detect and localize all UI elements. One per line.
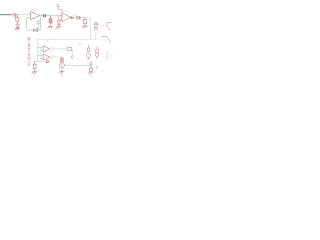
zener chain top arrow <box>28 37 30 45</box>
relay coil K1 <box>94 22 97 30</box>
second vertical <box>40 47 42 58</box>
wire B out <box>50 56 62 58</box>
wire right trunk <box>38 18 91 39</box>
ground mid <box>32 72 38 76</box>
power flag +5V <box>56 4 62 13</box>
switch S2 <box>102 37 110 44</box>
svg-text:TL081: TL081 <box>31 9 38 11</box>
net arrow out <box>71 17 74 19</box>
svg-text:1M: 1M <box>47 14 50 16</box>
capacitor C1 <box>36 20 40 31</box>
resistor R2 <box>49 16 52 27</box>
svg-text:o2: o2 <box>77 59 79 61</box>
ground R3 <box>82 26 88 28</box>
op-amp U2 <box>62 13 71 22</box>
zener D6 <box>28 55 31 63</box>
resistor R1 <box>16 15 19 24</box>
ground D4 <box>56 27 62 29</box>
stubs A <box>38 47 43 58</box>
wire to relay coil <box>91 30 96 39</box>
op-amp B <box>43 54 50 61</box>
resistor chain mid <box>33 61 36 71</box>
wire bottom <box>65 64 91 66</box>
op-amp U1 <box>31 12 40 20</box>
diamond node <box>71 55 74 58</box>
diode D3 feedback <box>34 28 38 32</box>
ground <box>15 29 21 31</box>
input stubs U1 <box>29 12 31 14</box>
switch S1 <box>107 22 112 30</box>
zener D5 <box>28 45 31 55</box>
wire to op-amp U1 <box>16 14 31 16</box>
svg-text:1k: 1k <box>95 61 97 63</box>
wire M1 down <box>61 68 63 72</box>
LED branch 2 <box>95 47 99 59</box>
junction mid <box>34 61 35 62</box>
meter M1 <box>59 63 64 68</box>
ground M1 <box>59 72 65 77</box>
svg-text:2n2: 2n2 <box>78 43 83 46</box>
wire U2 out <box>71 17 91 19</box>
wire U1 out <box>40 15 44 17</box>
diode D1 <box>13 13 16 18</box>
LED branch 1 <box>87 45 91 60</box>
junction <box>17 14 18 15</box>
dashed link <box>99 25 107 27</box>
op-amp A <box>43 46 50 53</box>
resistor R9 <box>90 65 93 72</box>
input stubs U2 <box>60 14 62 16</box>
junction feedback <box>38 30 39 31</box>
resistor R12 <box>68 47 72 50</box>
wire to U2 <box>46 15 62 17</box>
svg-text:Rs: Rs <box>12 11 15 13</box>
svg-text:148: 148 <box>109 56 112 58</box>
net arrow bottom <box>46 60 49 63</box>
wire input left <box>0 14 12 16</box>
wire down from R12 <box>71 49 74 55</box>
ground R2 <box>48 26 54 28</box>
svg-text:IC1B: IC1B <box>63 11 68 13</box>
varistor inline <box>77 16 81 19</box>
arrow end <box>28 63 30 66</box>
diode D4 branch <box>57 16 61 27</box>
resistor R3 <box>84 18 87 26</box>
wire left trunk down <box>37 39 39 61</box>
connector K1 bars <box>43 14 46 17</box>
svg-text:led: led <box>101 56 104 58</box>
ground right <box>88 73 94 77</box>
svg-text:com: com <box>67 63 71 65</box>
net leader diagonal <box>45 39 50 43</box>
wire A out <box>50 48 68 50</box>
box X1 <box>60 57 63 62</box>
diode D2 <box>16 24 20 29</box>
junctions <box>37 47 38 48</box>
junction node <box>50 15 51 16</box>
feedback wire loop <box>27 16 41 31</box>
junction B <box>61 57 62 58</box>
